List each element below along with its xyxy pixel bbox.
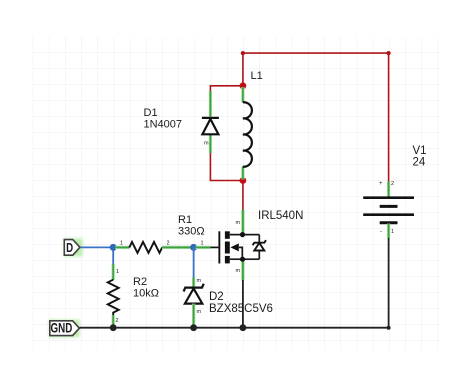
node top-left corner dot bbox=[241, 51, 245, 55]
node L1 bottom junction dot bbox=[240, 177, 247, 184]
wire red stub from D1 branch bottom bbox=[210, 152, 243, 181]
wire black source to rail bbox=[242, 280, 244, 328]
wire green terminal L1 bottom bbox=[241, 167, 244, 180]
node rail dot R2 bbox=[110, 324, 117, 331]
resistor R1 bbox=[129, 242, 162, 253]
wire green terminal D2 bottom bbox=[192, 304, 195, 325]
svg-text:330Ω: 330Ω bbox=[178, 226, 205, 238]
wire green terminal battery plus bbox=[387, 182, 390, 198]
svg-text:m: m bbox=[197, 278, 202, 284]
svg-text:-: - bbox=[380, 229, 382, 235]
svg-text:V1: V1 bbox=[413, 145, 427, 157]
svg-text:2: 2 bbox=[167, 241, 170, 247]
node L1 top junction dot bbox=[240, 82, 247, 89]
wire green terminal D1 bottom bbox=[209, 135, 212, 154]
svg-text:1: 1 bbox=[201, 241, 204, 247]
svg-text:1N4007: 1N4007 bbox=[144, 119, 183, 131]
svg-text:2: 2 bbox=[116, 318, 119, 324]
svg-text:D: D bbox=[66, 241, 73, 255]
node rail dot source bbox=[240, 324, 247, 331]
wire blue junction2 down to D2 bbox=[193, 247, 195, 278]
wire green terminal D1 top bbox=[209, 91, 212, 117]
wire black battery to rail bbox=[388, 238, 390, 328]
svg-text:D2: D2 bbox=[209, 291, 224, 303]
terminal flag GND bbox=[49, 320, 80, 337]
wire red stub to D1 branch top bbox=[210, 86, 243, 93]
wire green terminal R2 top bbox=[112, 264, 115, 280]
inductor L1 bbox=[243, 102, 252, 166]
resistor R2 bbox=[108, 280, 119, 316]
wire black ground rail bbox=[80, 327, 389, 329]
channel bars bbox=[225, 231, 230, 239]
svg-text:m: m bbox=[236, 268, 241, 274]
node junction dot blue left bbox=[110, 244, 117, 251]
svg-text:1: 1 bbox=[391, 229, 394, 235]
junction dots on drain/source bbox=[240, 232, 245, 237]
wire red vertical right drop to battery bbox=[388, 53, 390, 183]
svg-text:R2: R2 bbox=[133, 276, 147, 288]
wire green R1 right to junction bbox=[162, 246, 194, 249]
svg-text:GND: GND bbox=[51, 321, 73, 336]
wire green source terminal bbox=[241, 260, 244, 281]
grid canvas bbox=[31, 37, 440, 350]
node rail corner dot battery bbox=[387, 326, 391, 330]
svg-text:24: 24 bbox=[413, 157, 426, 169]
node top-right corner dot bbox=[387, 51, 391, 55]
drain lead bbox=[230, 234, 259, 236]
terminal flag D bbox=[64, 239, 83, 257]
wire top red horizontal bbox=[243, 52, 389, 54]
wire green terminal battery minus bbox=[387, 224, 390, 239]
wire red vertical left drop to L1 top node bbox=[242, 53, 244, 86]
wire green R1 left bbox=[115, 246, 130, 249]
wire green junction to gate bbox=[196, 246, 211, 249]
svg-text:m: m bbox=[197, 309, 202, 315]
svg-text:1: 1 bbox=[116, 269, 119, 275]
gate lead bbox=[210, 246, 218, 248]
wire green terminal R2 bottom bbox=[112, 315, 115, 325]
svg-text:10kΩ: 10kΩ bbox=[133, 288, 159, 300]
svg-text:m: m bbox=[204, 141, 209, 147]
source lead bbox=[230, 258, 259, 260]
svg-text:BZX85C5V6: BZX85C5V6 bbox=[209, 303, 273, 315]
body arrow bbox=[230, 243, 238, 251]
svg-text:IRL540N: IRL540N bbox=[258, 210, 303, 222]
node junction dot blue right bbox=[190, 244, 197, 251]
wire green terminal L1 top bbox=[241, 87, 244, 103]
svg-text:+: + bbox=[379, 181, 383, 187]
svg-text:1: 1 bbox=[120, 241, 123, 247]
svg-text:D1: D1 bbox=[144, 107, 158, 119]
node rail dot D2 bbox=[190, 324, 197, 331]
diode D1 bbox=[202, 118, 219, 134]
svg-text:L1: L1 bbox=[251, 70, 263, 82]
zener diode D2 bbox=[184, 284, 204, 304]
gate bar bbox=[218, 231, 220, 263]
transistor Q1 IRL540N bbox=[210, 231, 266, 263]
wire green drain terminal bbox=[241, 210, 244, 235]
body zener diode bbox=[253, 240, 266, 250]
body diode branch bbox=[258, 235, 260, 243]
svg-text:2: 2 bbox=[391, 181, 394, 187]
battery V1 bbox=[363, 198, 414, 223]
svg-text:m: m bbox=[236, 220, 241, 226]
wire red trunk L1 bottom to drain region bbox=[242, 181, 244, 211]
wire blue D to junction bbox=[81, 246, 114, 248]
wire green terminal D2 top bbox=[192, 278, 195, 288]
wire blue junction down bbox=[112, 247, 114, 265]
svg-text:R1: R1 bbox=[178, 214, 192, 226]
